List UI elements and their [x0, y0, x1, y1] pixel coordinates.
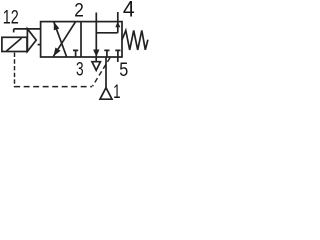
svg-text:1: 1 [113, 82, 120, 103]
return spring [122, 30, 148, 50]
wire pilot port 12 line [14, 28, 41, 30]
svg-text:5: 5 [119, 60, 128, 81]
solenoid coil Y1 [2, 37, 27, 51]
left square arrow 4->3 [53, 22, 75, 57]
right square flow line 2->3 with stub [95, 13, 97, 57]
port 1 line [105, 57, 107, 88]
left square arrow 1->2 [54, 22, 67, 57]
valve position divider [80, 22, 82, 57]
svg-text:3: 3 [76, 59, 84, 80]
port 5 stub [117, 57, 119, 62]
pilot control dashed line diagonal [93, 58, 111, 86]
port 3 stub [95, 57, 97, 62]
exhaust triangle at port 3 [92, 62, 100, 71]
right square blocked port T at 1 [104, 50, 109, 56]
svg-text:4: 4 [123, 0, 135, 22]
pilot stub on valve left edge [38, 44, 41, 46]
left square blocked port T [73, 50, 78, 56]
valve body [41, 22, 122, 57]
pilot amplifier triangle [27, 29, 36, 52]
right square branch to port 4 [96, 12, 118, 33]
pilot control dashed line vertical [14, 53, 16, 88]
svg-text:12: 12 [3, 7, 19, 28]
pilot control dashed line horizontal [14, 86, 92, 88]
supply triangle at port 1 [100, 88, 112, 100]
wire port 12 stub tick [13, 29, 15, 33]
right square blocked port T at 5 [115, 50, 120, 56]
svg-text:2: 2 [74, 0, 84, 21]
